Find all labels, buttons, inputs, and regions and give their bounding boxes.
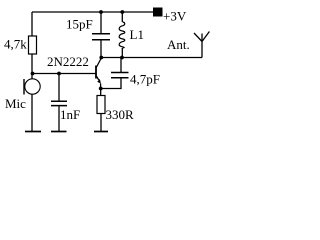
node emitter junction dot [99,87,103,91]
antenna mast [201,34,203,58]
transistor Q1 2N2222 base bar [95,66,97,79]
wire R2 bottom to ground [100,114,102,132]
wire 1nF bottom stub [58,106,60,131]
svg-text:4,7pF: 4,7pF [130,72,160,87]
microphone MIC circle [25,79,40,94]
capacitor C3 4,7pF plates [111,73,129,78]
node collector junction dot [99,56,103,60]
svg-text:+3V: +3V [163,9,187,24]
node L1 bottom rail dot [120,56,124,60]
node 15pF top rail dot [99,10,103,14]
power +3V terminal square [153,8,163,17]
node L1 top rail dot [120,10,124,14]
resistor R1 4,7k body [29,36,37,54]
wire left drop to R1 [31,12,33,36]
ground 330R [94,131,108,133]
ground mic [25,131,41,133]
wire 15pF top stub [100,12,102,34]
transistor Q1 emitter lead with arrow [96,76,101,89]
wire L1 top stub [121,12,123,22]
wire L1 bottom stub [121,48,123,58]
capacitor C2 15pF plates [92,34,110,40]
antenna arms [194,32,209,42]
svg-text:L1: L1 [130,27,144,42]
inductor L1 coil [119,22,125,48]
wire 15pF bottom stub [100,40,102,58]
node base junction dot [31,72,35,76]
wire emitter to resistor R2 [100,89,102,96]
svg-text:Mic: Mic [5,96,26,111]
resistor R2 330R body [97,96,105,114]
svg-text:2N2222: 2N2222 [47,54,89,69]
node 1nF junction dot [57,72,61,76]
svg-text:330R: 330R [106,107,135,122]
capacitor C1 1nF plates [51,101,67,105]
wire top rail +3V [32,11,153,13]
wire 1nF top stub [58,74,60,102]
wire emitter to C3 bottom [101,78,121,89]
microphone MIC electret bar [23,79,25,95]
transistor Q1 collector lead [96,58,101,68]
svg-text:4,7k: 4,7k [4,37,27,52]
ground 1nF [51,131,67,133]
svg-text:15pF: 15pF [66,17,93,32]
svg-text:1nF: 1nF [60,107,80,122]
wire R1 bottom to base node [31,54,33,79]
wire mic bottom to ground [31,95,33,132]
wire base line [32,73,96,75]
svg-text:Ant.: Ant. [167,37,190,52]
wire tank rail to antenna [101,57,202,59]
wire C3 top stub to tank rail [120,58,122,73]
